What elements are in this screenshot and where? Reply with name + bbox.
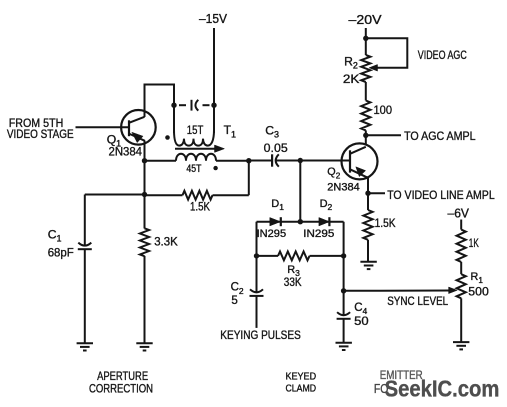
svg-text:100: 100 <box>374 103 393 117</box>
svg-text:T1: T1 <box>224 123 236 139</box>
svg-text:Q2: Q2 <box>327 166 340 180</box>
svg-text:1.5K: 1.5K <box>190 200 210 214</box>
svg-text:2N384: 2N384 <box>327 182 359 194</box>
svg-text:TO VIDEO LINE AMPL: TO VIDEO LINE AMPL <box>387 188 495 202</box>
svg-text:1.5K: 1.5K <box>375 218 396 230</box>
svg-text:C1: C1 <box>48 228 62 244</box>
svg-text:VIDEO AGC: VIDEO AGC <box>418 48 467 62</box>
svg-text:R2: R2 <box>344 55 358 71</box>
svg-text:15T: 15T <box>187 125 204 137</box>
svg-text:500: 500 <box>468 285 489 299</box>
svg-text:SeekIC.com: SeekIC.com <box>385 375 500 401</box>
svg-text:–20V: –20V <box>349 12 382 27</box>
svg-text:68pF: 68pF <box>48 246 74 260</box>
svg-text:IN295: IN295 <box>257 228 287 240</box>
svg-text:CORRECTION: CORRECTION <box>89 382 153 396</box>
svg-text:C2: C2 <box>231 282 244 296</box>
svg-text:SYNC LEVEL: SYNC LEVEL <box>387 294 448 308</box>
svg-text:C4: C4 <box>354 302 367 316</box>
svg-text:TO AGC AMPL: TO AGC AMPL <box>404 129 476 143</box>
svg-text:KEYING PULSES: KEYING PULSES <box>220 328 300 342</box>
svg-text:–15V: –15V <box>199 11 227 26</box>
svg-text:CLAMD: CLAMD <box>286 383 317 395</box>
svg-text:2K: 2K <box>343 72 360 86</box>
svg-text:VIDEO STAGE: VIDEO STAGE <box>7 127 74 141</box>
svg-text:45T: 45T <box>186 163 201 175</box>
svg-text:R1: R1 <box>471 271 484 285</box>
svg-text:0.05: 0.05 <box>264 141 288 155</box>
svg-text:2N384: 2N384 <box>109 144 143 158</box>
svg-text:3.3K: 3.3K <box>154 234 178 248</box>
svg-text:KEYED: KEYED <box>286 370 317 382</box>
svg-text:33K: 33K <box>284 277 302 289</box>
svg-text:50: 50 <box>354 316 369 328</box>
svg-text:R3: R3 <box>287 264 300 278</box>
svg-text:D1: D1 <box>271 198 284 212</box>
svg-text:5: 5 <box>231 295 237 307</box>
svg-text:1K: 1K <box>469 236 479 250</box>
svg-text:D2: D2 <box>320 198 333 212</box>
svg-text:C3: C3 <box>265 124 279 140</box>
svg-text:IN295: IN295 <box>303 228 334 240</box>
svg-text:–6V: –6V <box>448 206 470 221</box>
